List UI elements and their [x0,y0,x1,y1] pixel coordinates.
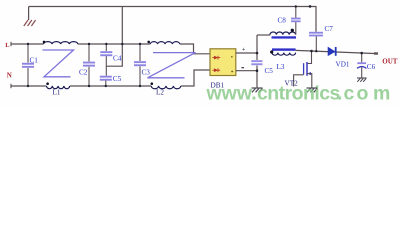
capacitor C8 [278,7,301,25]
node OUT terminal tick [374,52,378,55]
wire earth drop mid (to C4/C5 midpoint) [106,7,122,67]
L1 polarity dot bottom [46,82,49,85]
ground (under VT2 source) [307,88,318,92]
L1 polarity dot top [43,41,46,44]
capacitor C3 [134,44,150,86]
transformer L3 primary left lead [257,34,270,36]
gate bar [303,63,305,74]
svg-text:www.cntronics.com: www.cntronics.com [206,82,391,104]
L2 polarity dot bottom [151,82,154,85]
inductor L2 common-mode choke top winding [150,42,180,44]
wire DB1 - output [236,70,257,72]
transistor VT2 (MOSFET) [285,51,312,88]
svg-text:C5: C5 [113,75,122,83]
capacitor C6 (output electrolytic) [357,53,376,78]
svg-text:N: N [7,71,12,79]
wire L line segment 2 [78,43,150,45]
svg-text:C3: C3 [142,69,151,77]
svg-text:L: L [5,42,10,49]
wire rail corner down to C7 [315,6,317,32]
L1 coupling Z symbol [43,50,74,77]
svg-text:C4: C4 [113,55,122,63]
svg-text:C7: C7 [325,25,334,33]
diode glyph 2 inside DB1 [212,68,220,72]
wire DB1 + output [236,52,257,54]
node N terminal [10,84,12,88]
ground (protective earth, top-left) [24,20,36,26]
svg-text:L2: L2 [156,89,164,97]
channel bar [306,62,308,76]
wire L line segment 3 and jog down to DB1 pin [180,44,210,54]
transformer secondary polarity dot [270,50,273,53]
minus mark at DB1 output [242,67,244,68]
L2 coupling Z symbol [148,53,196,78]
inductor L1 common-mode choke top winding [44,42,78,44]
ground (under C6) [357,78,367,82]
transformer L3 primary bar [272,36,297,38]
svg-text:C8: C8 [278,17,287,25]
svg-text:C1: C1 [30,57,39,65]
transformer L3 primary winding [270,32,296,35]
source lead [307,74,312,88]
bridge rectifier DB1 [210,49,236,90]
transformer primary polarity dot [291,29,294,32]
L2 polarity dot top [147,41,150,44]
wire N line segment 3 and jog up to DB1 pin [181,70,210,86]
ground (under bulk C5) [252,88,263,92]
source arrow [307,72,311,75]
diode glyph 1 inside DB1 [212,56,220,60]
svg-text:C2: C2 [79,69,88,77]
diode VD1 [328,47,350,68]
drain lead [307,51,311,64]
svg-text:L1: L1 [53,89,61,97]
inductor L1 bottom winding [47,86,70,89]
capacitor C5 (Y-cap bottom) [100,75,122,86]
wire primary right lead up to C8 [295,21,297,35]
svg-text:VD1: VD1 [336,60,350,68]
capacitor C7 [309,25,333,51]
wire N line segment 1 [11,85,47,87]
svg-text:OUT: OUT [382,57,398,65]
capacitor C2 [79,44,95,86]
wire L line segment 1 [11,43,44,45]
transformer L3 secondary winding [272,53,296,56]
wire output line (secondary to OUT) [296,50,377,53]
wire N line segment 2 [70,85,151,87]
gate lead [294,75,304,87]
wire top earth rail [29,6,316,8]
svg-text:C5: C5 [265,67,274,75]
capacitor C1 [22,44,38,86]
svg-text:L3: L3 [277,63,285,71]
transformer L3 secondary bar [272,48,296,50]
capacitor C4 (Y-cap top) [100,44,121,76]
node L terminal [10,42,12,46]
svg-text:+: + [242,47,245,53]
svg-text:C6: C6 [367,63,376,71]
capacitor C5 (bulk, after bridge) [251,35,273,88]
wire earth stub top-left [28,7,30,21]
pin marks inside DB1 right edge [231,56,233,57]
inductor L2 bottom winding [151,86,181,89]
